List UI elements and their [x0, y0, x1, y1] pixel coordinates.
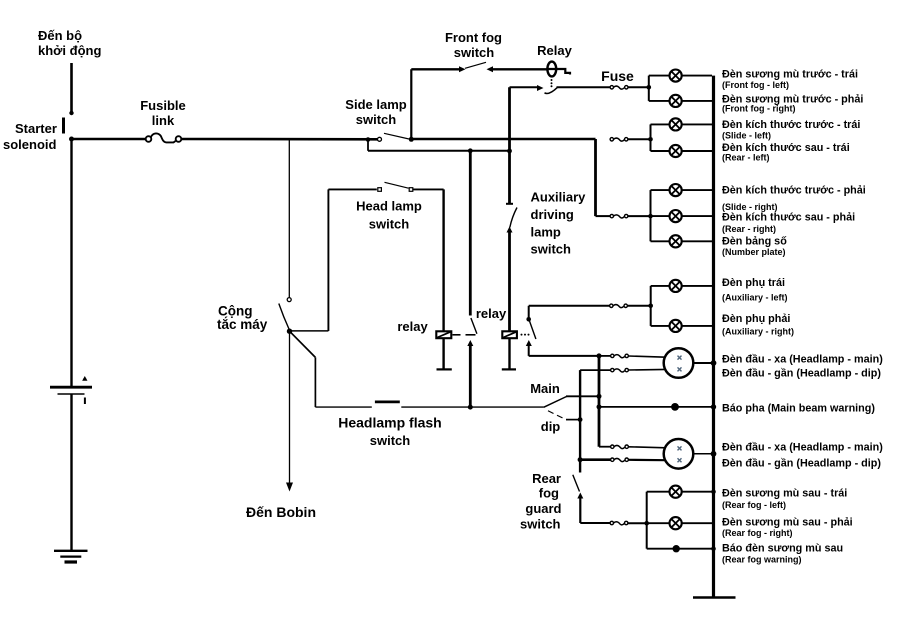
svg-text:switch: switch — [454, 45, 495, 60]
lamp L10 rear fog left — [647, 486, 716, 498]
svg-text:(Number plate): (Number plate) — [722, 247, 786, 257]
svg-text:Rear: Rear — [532, 471, 561, 486]
wire: front fog branch riser — [410, 69, 412, 139]
svg-text:Đèn đầu - xa (Headlamp - main): Đèn đầu - xa (Headlamp - main) — [722, 442, 883, 454]
svg-text:(Rear fog - left): (Rear fog - left) — [722, 500, 786, 510]
svg-text:(Rear - left): (Rear - left) — [722, 153, 770, 163]
lamp L6 rear right — [651, 210, 713, 222]
svg-text:driving: driving — [531, 207, 574, 222]
wire: starter feed drop — [69, 63, 73, 115]
wire: side lamps feeder vertical x595 — [594, 139, 597, 216]
node: rear fog warning label — [722, 543, 843, 565]
wire: relay RL2 switched vertical lower — [468, 345, 473, 410]
node: rear right label — [722, 211, 855, 234]
relay RL2 coil box — [397, 319, 475, 369]
fusible link F0 — [140, 98, 186, 142]
svg-text:Đèn đầu - gần (Headlamp - dip): Đèn đầu - gần (Headlamp - dip) — [722, 458, 881, 470]
wire: relay RL2 switched vertical upper — [469, 151, 472, 316]
relay RL1 coil — [537, 43, 572, 87]
svg-text:Đèn đầu - gần (Headlamp - dip): Đèn đầu - gần (Headlamp - dip) — [722, 368, 881, 380]
svg-text:(Front fog - right): (Front fog - right) — [722, 104, 795, 114]
svg-text:Đèn sương mù sau - trái: Đèn sương mù sau - trái — [722, 488, 847, 500]
switch: relay RL3 contact — [526, 317, 536, 346]
svg-text:Đèn kích thước sau - phải: Đèn kích thước sau - phải — [722, 211, 855, 223]
svg-text:Front fog: Front fog — [445, 30, 502, 45]
node: number plate label — [722, 236, 787, 257]
switch: rear fog guard switch — [520, 471, 610, 532]
switch: front fog switch — [411, 30, 547, 72]
lamp L1 front fog left — [649, 70, 712, 82]
switch: auxiliary driving lamp switch — [507, 190, 587, 257]
svg-text:(Slide - left): (Slide - left) — [722, 130, 771, 140]
fuse F9 (rear fog row) — [610, 521, 649, 526]
fuse F8 (headlamp 2 dip) — [580, 458, 666, 462]
relay RL3 coil box — [476, 306, 530, 369]
svg-text:Đèn phụ phải: Đèn phụ phải — [722, 313, 790, 325]
lamp L4 rear left — [651, 145, 713, 157]
wire: auxiliary switch drop to relay RL3 coil — [508, 231, 511, 332]
wire: main feed horizontal to side lamp switch — [182, 138, 378, 141]
svg-text:(Rear fog warning): (Rear fog warning) — [722, 555, 802, 565]
lamp L3 side front left — [651, 118, 713, 130]
junction: solenoid node on main wire — [69, 137, 74, 142]
svg-text:switch: switch — [370, 433, 411, 448]
lamp L11 rear fog right — [647, 517, 712, 529]
wire: battery to ground — [70, 394, 72, 550]
wire: main feed right of side lamp switch — [411, 138, 595, 141]
fuse F7 (headlamp 2 main) — [599, 445, 666, 449]
wire: headlamp main feed from relay RL3 — [529, 345, 602, 359]
svg-text:(Rear fog - right): (Rear fog - right) — [722, 528, 793, 538]
lamp L2 front fog right — [649, 95, 712, 107]
svg-text:Đèn kích thước trước - trái: Đèn kích thước trước - trái — [722, 119, 860, 131]
svg-text:Đèn phụ trái: Đèn phụ trái — [722, 277, 785, 289]
wire: main feed horizontal left part — [72, 138, 146, 141]
svg-text:Báo pha (Main beam warning): Báo pha (Main beam warning) — [722, 403, 875, 415]
wire: head lamp switch drop to relay RL2 — [442, 189, 444, 331]
svg-text:Main: Main — [530, 381, 560, 396]
svg-text:Auxiliary: Auxiliary — [531, 190, 587, 205]
svg-text:tắc máy: tắc máy — [217, 317, 268, 332]
node: rear fog left label — [722, 488, 847, 510]
svg-text:Đèn sương mù sau - phải: Đèn sương mù sau - phải — [722, 516, 853, 528]
switch: relay RL1 contact row — [510, 85, 611, 93]
svg-text:switch: switch — [531, 242, 572, 257]
fuse F3 (side-rear right row) — [596, 214, 653, 219]
node: to starter feed label — [38, 28, 101, 58]
lamp L9 auxiliary right — [651, 320, 712, 332]
svg-text:Side lamp: Side lamp — [345, 97, 406, 112]
svg-text:guard: guard — [525, 501, 561, 516]
svg-text:switch: switch — [520, 517, 561, 532]
svg-text:Đến bộ: Đến bộ — [38, 28, 82, 43]
svg-text:Đèn sương mù trước - trái: Đèn sương mù trước - trái — [722, 69, 858, 81]
headlamp H2 — [664, 439, 717, 469]
svg-text:Fusible: Fusible — [140, 98, 186, 113]
node: headlamp 1 labels — [722, 354, 883, 380]
fuse F4 (auxiliary lamps row) — [610, 304, 653, 309]
svg-text:relay: relay — [397, 319, 428, 334]
svg-text:solenoid: solenoid — [3, 137, 57, 152]
node: front fog right label — [722, 94, 863, 114]
svg-text:dip: dip — [541, 419, 561, 434]
svg-text:Fuse: Fuse — [601, 68, 634, 84]
switch: ignition switch Cong tac may — [217, 139, 292, 334]
svg-text:(Front fog - left): (Front fog - left) — [722, 80, 789, 90]
headlamp H1 — [664, 348, 717, 378]
node: headlamp 2 labels — [722, 442, 883, 470]
node: auxiliary right label — [722, 313, 794, 337]
wire: dip feeder vertical x580 — [578, 370, 583, 472]
node: rear left label — [722, 142, 850, 162]
svg-text:(Rear - right): (Rear - right) — [722, 224, 776, 234]
svg-text:Báo đèn sương mù sau: Báo đèn sương mù sau — [722, 543, 843, 555]
battery BT1 — [50, 377, 92, 404]
svg-text:Đèn kích thước trước - phải: Đèn kích thước trước - phải — [722, 185, 866, 197]
svg-text:fog: fog — [539, 486, 559, 501]
node: side front right label — [722, 185, 866, 212]
wire: ignition diagonal to flash wire — [290, 331, 316, 407]
svg-text:relay: relay — [476, 306, 507, 321]
wire: battery drop — [70, 139, 72, 386]
node: front fog left label — [722, 69, 858, 91]
svg-text:khởi động: khởi động — [38, 43, 101, 58]
switch: side lamp switch — [345, 97, 414, 142]
svg-text:switch: switch — [356, 112, 397, 127]
wire: head lamp switch left branch — [327, 189, 329, 331]
wire: ignition to head lamp switch — [290, 330, 329, 332]
fuse F2 (side-rear left row) — [610, 137, 653, 142]
wire: side-rear right branch — [650, 190, 652, 241]
svg-text:lamp: lamp — [531, 225, 561, 240]
fuse F6 (headlamp 1 dip) — [580, 368, 666, 372]
fuse F1 (front fog) — [601, 68, 651, 90]
lamp L5 side front right — [651, 184, 713, 196]
svg-text:Đèn bảng số: Đèn bảng số — [722, 236, 787, 248]
svg-text:link: link — [152, 113, 175, 128]
svg-text:Headlamp flash: Headlamp flash — [338, 415, 441, 431]
wire: front fog lamp branch — [648, 76, 650, 101]
svg-text:(Auxiliary - left): (Auxiliary - left) — [722, 293, 788, 303]
wire: auxiliary lamps branch — [650, 286, 652, 326]
switch: head lamp switch — [328, 182, 443, 231]
switch: headlamp flash switch — [315, 402, 543, 448]
fuse F5 (headlamp 1 main) — [599, 354, 666, 358]
svg-text:Head lamp: Head lamp — [356, 199, 422, 214]
wire: to bobin drop with arrow — [246, 331, 316, 520]
node: starter solenoid label — [3, 118, 65, 153]
svg-text:Starter: Starter — [15, 121, 57, 136]
lamp L8 auxiliary left — [651, 280, 712, 292]
wire: aux lamps feed corner — [529, 306, 610, 318]
svg-text:Relay: Relay — [537, 43, 572, 58]
svg-text:Đến Bobin: Đến Bobin — [246, 504, 316, 520]
node: rear fog right label — [722, 516, 853, 538]
node: auxiliary left label — [722, 277, 788, 303]
switch: relay RL2 contact — [467, 318, 477, 346]
wire: relay RL1 drop to auxiliary switch — [506, 87, 513, 204]
lamp L7 number plate — [651, 235, 713, 247]
svg-text:(Auxiliary - right): (Auxiliary - right) — [722, 327, 794, 337]
svg-text:switch: switch — [369, 217, 410, 232]
lamp: rear fog warning indicator — [647, 545, 716, 552]
svg-text:Đèn đầu - xa (Headlamp - main): Đèn đầu - xa (Headlamp - main) — [722, 354, 883, 366]
wire: earth bus — [693, 76, 736, 598]
wire: rear fog branch — [646, 492, 648, 549]
ground — [54, 551, 88, 562]
wire: side lamp bypass lower wire — [368, 140, 512, 154]
wire: headlamp feeder vertical x599 — [597, 356, 602, 447]
switch: main-dip selector — [530, 381, 601, 434]
node: side front left label — [722, 119, 860, 140]
lamp: main beam warning indicator — [599, 403, 716, 411]
wire: side-rear left branch — [650, 124, 652, 151]
